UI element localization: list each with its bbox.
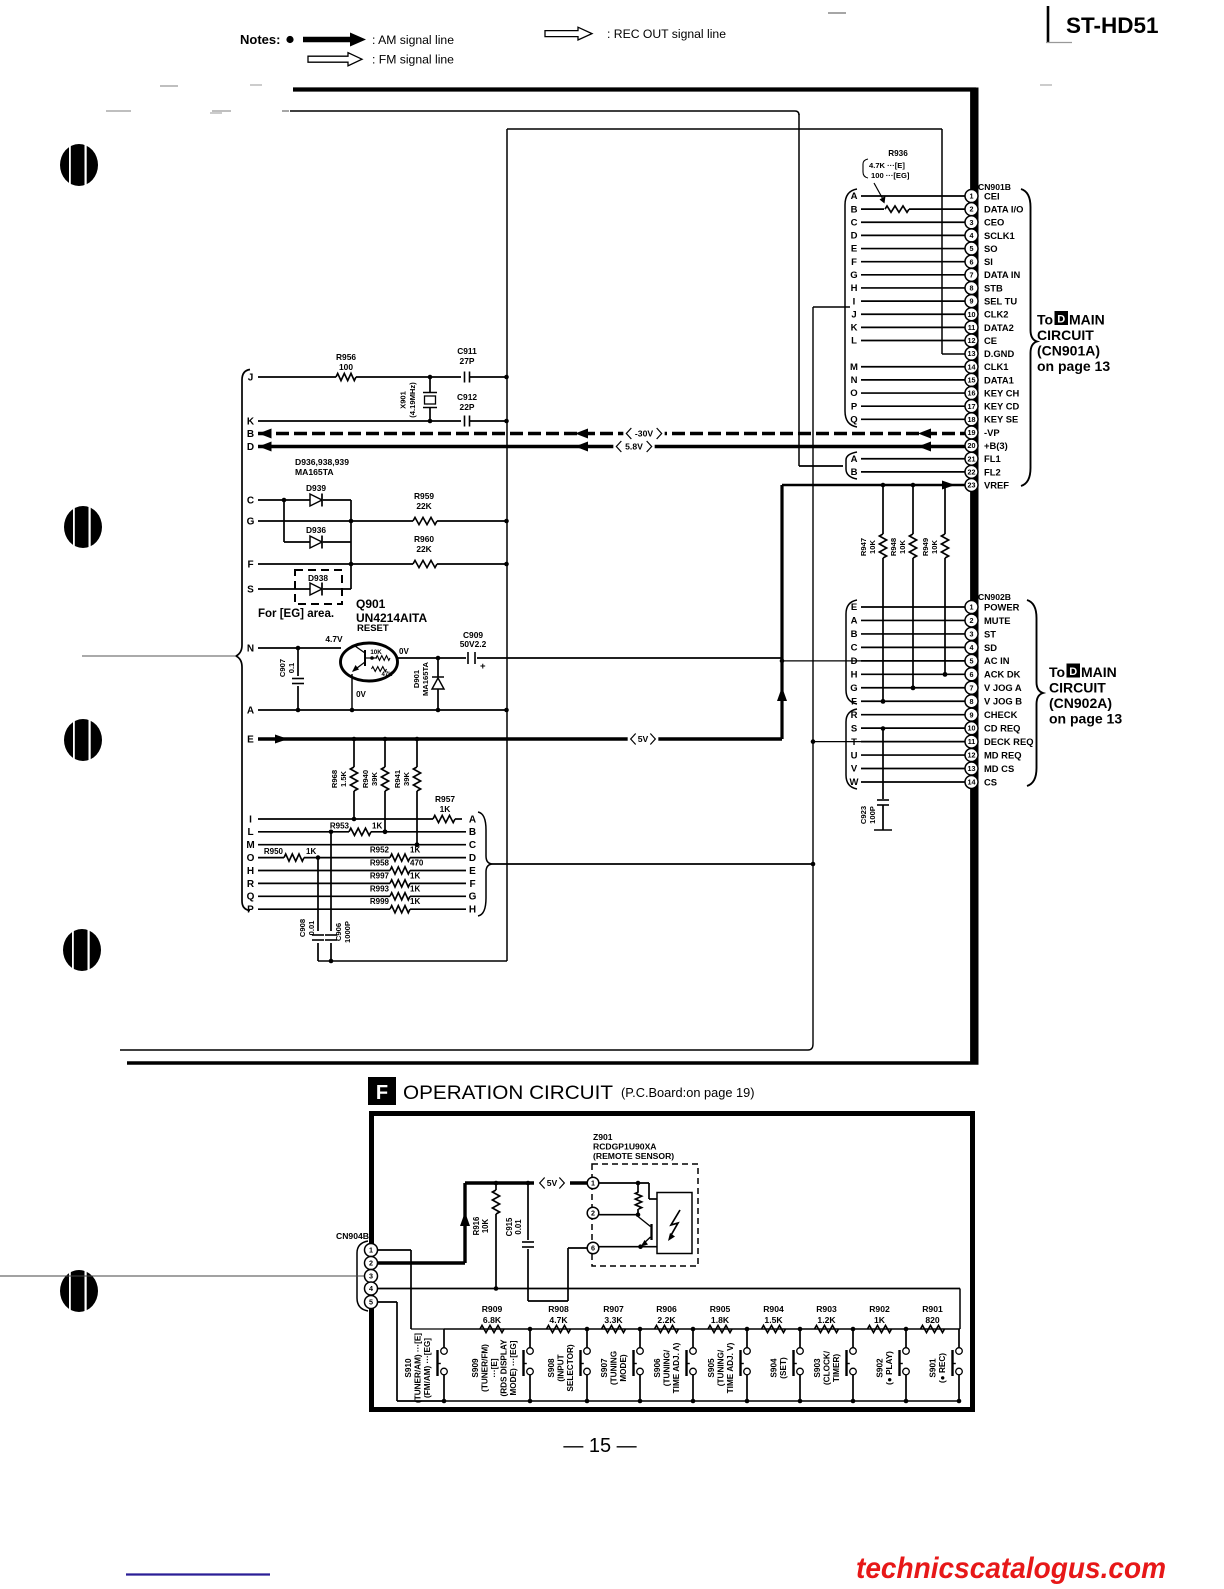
svg-text:2: 2 — [970, 205, 974, 214]
svg-text:1K: 1K — [410, 871, 420, 880]
svg-text:R952: R952 — [370, 846, 390, 855]
svg-text:H: H — [469, 905, 476, 916]
svg-text:M: M — [850, 362, 858, 373]
svg-text:(RDS DISPLAY: (RDS DISPLAY — [500, 1339, 509, 1397]
svg-text:22P: 22P — [460, 402, 475, 412]
svg-text:H: H — [851, 283, 858, 294]
svg-text:SCLK1: SCLK1 — [984, 230, 1015, 241]
svg-text:C911: C911 — [457, 346, 477, 356]
svg-text:D939: D939 — [306, 483, 326, 493]
svg-text:OPERATION CIRCUIT: OPERATION CIRCUIT — [403, 1082, 613, 1104]
svg-text:5V: 5V — [547, 1178, 558, 1188]
svg-text:A: A — [469, 814, 476, 825]
svg-text:5: 5 — [970, 244, 974, 253]
svg-text:16: 16 — [968, 389, 976, 398]
svg-text:D936,938,939: D936,938,939 — [295, 457, 349, 467]
svg-text:0.01: 0.01 — [514, 1219, 523, 1235]
svg-text:E: E — [851, 244, 857, 255]
svg-text:2: 2 — [369, 1259, 373, 1268]
svg-text:A: A — [247, 705, 254, 716]
svg-text:RCDGP1U90XA: RCDGP1U90XA — [593, 1142, 657, 1152]
svg-text:+B(3): +B(3) — [984, 440, 1008, 451]
svg-text:1K: 1K — [410, 884, 420, 893]
svg-text:T: T — [851, 737, 857, 748]
svg-text:CLK2: CLK2 — [984, 309, 1008, 320]
svg-text:2: 2 — [970, 616, 974, 625]
svg-text:SO: SO — [984, 243, 998, 254]
svg-text:R956: R956 — [336, 352, 356, 362]
svg-text:A: A — [851, 191, 858, 202]
svg-text:(REMOTE SENSOR): (REMOTE SENSOR) — [593, 1151, 674, 1161]
svg-text:D901: D901 — [412, 669, 421, 688]
svg-text:D: D — [469, 853, 476, 864]
svg-text:1: 1 — [369, 1246, 373, 1255]
svg-text:1K: 1K — [410, 897, 420, 906]
svg-text:+: + — [480, 661, 486, 672]
svg-text:D.GND: D.GND — [984, 348, 1014, 359]
svg-text:D: D — [851, 231, 858, 242]
svg-text:KEY CH: KEY CH — [984, 387, 1019, 398]
svg-text:S907: S907 — [600, 1358, 609, 1378]
svg-text:1K: 1K — [874, 1315, 886, 1325]
svg-text:J: J — [248, 372, 254, 383]
svg-text:B: B — [851, 629, 858, 640]
svg-text:3.3K: 3.3K — [604, 1315, 623, 1325]
svg-text:(TUNING/: (TUNING/ — [717, 1349, 726, 1386]
svg-text:To: To — [1049, 664, 1065, 680]
svg-text:3: 3 — [970, 218, 974, 227]
svg-text:MA165TA: MA165TA — [295, 467, 334, 477]
svg-text:D938: D938 — [308, 573, 328, 583]
svg-text:S910: S910 — [404, 1358, 413, 1378]
svg-text:6: 6 — [591, 1244, 595, 1253]
svg-text:6: 6 — [970, 257, 974, 266]
svg-text:VREF: VREF — [984, 479, 1009, 490]
svg-text:N: N — [851, 375, 858, 386]
svg-text:(TUNER/FM): (TUNER/FM) — [481, 1344, 490, 1392]
svg-text:11: 11 — [968, 737, 976, 746]
svg-text:20: 20 — [968, 441, 976, 450]
svg-text:12: 12 — [968, 336, 976, 345]
svg-text:A: A — [851, 454, 858, 465]
svg-text:5: 5 — [970, 656, 974, 665]
svg-text:on page 13: on page 13 — [1049, 711, 1122, 727]
svg-text:J: J — [851, 309, 856, 320]
svg-text:S905: S905 — [707, 1358, 716, 1378]
svg-text:S: S — [247, 584, 254, 595]
svg-text:15: 15 — [968, 376, 976, 385]
svg-text:9: 9 — [970, 297, 974, 306]
svg-text:CN904B: CN904B — [336, 1231, 369, 1241]
svg-text:V JOG B: V JOG B — [984, 696, 1022, 707]
svg-text:W: W — [850, 777, 859, 788]
svg-text:39K: 39K — [402, 772, 411, 786]
svg-text:: AM signal line: : AM signal line — [372, 33, 454, 47]
svg-text:(● PLAY): (● PLAY) — [885, 1351, 894, 1385]
svg-text:KEY CD: KEY CD — [984, 401, 1019, 412]
svg-text:MUTE: MUTE — [984, 615, 1011, 626]
svg-text:KEY SE: KEY SE — [984, 414, 1018, 425]
svg-text:R950: R950 — [264, 847, 284, 856]
svg-text:Q: Q — [247, 892, 255, 903]
svg-text:R949: R949 — [921, 538, 930, 556]
svg-text:MODE): MODE) — [619, 1354, 628, 1382]
svg-text:(CN902A): (CN902A) — [1049, 695, 1112, 711]
svg-text:R957: R957 — [435, 794, 455, 804]
svg-text:V JOG A: V JOG A — [984, 682, 1022, 693]
svg-text:(CLOCK/: (CLOCK/ — [823, 1350, 832, 1385]
svg-text:1.5K: 1.5K — [339, 770, 348, 787]
svg-text:Q901: Q901 — [356, 597, 386, 611]
svg-text:SD: SD — [984, 642, 997, 653]
svg-text:5: 5 — [369, 1298, 373, 1307]
svg-text:-VP: -VP — [984, 427, 1000, 438]
svg-text:CIRCUIT: CIRCUIT — [1049, 680, 1106, 696]
svg-text:(● REC): (● REC) — [938, 1353, 947, 1383]
svg-text:C: C — [469, 840, 476, 851]
svg-text:U: U — [851, 750, 858, 761]
svg-text:CE: CE — [984, 335, 997, 346]
svg-text:TIME ADJ. Λ): TIME ADJ. Λ) — [672, 1342, 681, 1393]
svg-text:S909: S909 — [471, 1358, 480, 1378]
svg-text:C908: C908 — [298, 919, 307, 937]
svg-text:C906: C906 — [334, 923, 343, 941]
svg-text:1000P: 1000P — [343, 921, 352, 943]
svg-text:B: B — [851, 204, 858, 215]
svg-text:1.5K: 1.5K — [764, 1315, 783, 1325]
svg-text:1K: 1K — [440, 804, 451, 814]
svg-text:2: 2 — [591, 1209, 595, 1218]
svg-text:0.01: 0.01 — [307, 920, 316, 936]
svg-text:O: O — [247, 853, 255, 864]
svg-text:R936: R936 — [888, 149, 908, 158]
svg-text:POWER: POWER — [984, 601, 1020, 612]
svg-text:R908: R908 — [548, 1304, 569, 1314]
svg-text:F: F — [851, 696, 857, 707]
svg-text:C915: C915 — [505, 1217, 514, 1236]
svg-text:C907: C907 — [278, 659, 287, 677]
svg-text:FL2: FL2 — [984, 466, 1001, 477]
svg-text:MODE) ···[EG]: MODE) ···[EG] — [509, 1340, 518, 1395]
svg-text:CEO: CEO — [984, 217, 1004, 228]
svg-text:Notes:: Notes: — [240, 32, 280, 47]
svg-text:R953: R953 — [330, 822, 350, 831]
svg-text:Z901: Z901 — [593, 1132, 613, 1142]
svg-text:X901: X901 — [399, 390, 408, 409]
svg-text:6.8K: 6.8K — [483, 1315, 502, 1325]
svg-text:470: 470 — [410, 859, 424, 868]
svg-text:MD CS: MD CS — [984, 763, 1014, 774]
svg-text:R941: R941 — [393, 769, 402, 788]
svg-text:C912: C912 — [457, 392, 477, 402]
svg-text:E: E — [469, 866, 476, 877]
svg-text:CD REQ: CD REQ — [984, 723, 1020, 734]
svg-text:23: 23 — [968, 481, 976, 490]
svg-text:R904: R904 — [763, 1304, 784, 1314]
svg-text:50V2.2: 50V2.2 — [460, 639, 487, 649]
svg-text:10: 10 — [968, 724, 976, 733]
svg-text:MAIN: MAIN — [1069, 312, 1105, 328]
svg-text:R903: R903 — [816, 1304, 837, 1314]
svg-text:R993: R993 — [370, 884, 390, 893]
svg-text:1K: 1K — [372, 822, 382, 831]
svg-text:1: 1 — [970, 603, 974, 612]
svg-text:K: K — [247, 416, 255, 427]
svg-text:R902: R902 — [869, 1304, 890, 1314]
svg-text:(FM/AM) ···[EG]: (FM/AM) ···[EG] — [423, 1338, 432, 1398]
svg-text:7: 7 — [970, 683, 974, 692]
svg-text:MD REQ: MD REQ — [984, 749, 1022, 760]
svg-text:TIME ADJ. V): TIME ADJ. V) — [726, 1342, 735, 1393]
svg-text:3: 3 — [369, 1272, 373, 1281]
svg-text:1: 1 — [591, 1179, 595, 1188]
svg-text:39K: 39K — [370, 772, 379, 786]
svg-text:1K: 1K — [306, 847, 316, 856]
svg-text:5.8V: 5.8V — [625, 442, 643, 452]
svg-text:SEL TU: SEL TU — [984, 295, 1017, 306]
svg-text:1.2K: 1.2K — [817, 1315, 836, 1325]
svg-text:DATA IN: DATA IN — [984, 269, 1021, 280]
svg-text:FL1: FL1 — [984, 453, 1001, 464]
svg-text:0V: 0V — [399, 647, 409, 656]
svg-text:27P: 27P — [460, 356, 475, 366]
svg-text:R907: R907 — [603, 1304, 624, 1314]
svg-text:F: F — [247, 559, 253, 570]
svg-text:D: D — [1057, 313, 1065, 325]
svg-text:B: B — [851, 467, 858, 478]
svg-text:R999: R999 — [370, 897, 390, 906]
svg-text:I: I — [853, 296, 856, 307]
svg-text:-30V: -30V — [635, 429, 653, 439]
svg-text:RESET: RESET — [357, 623, 389, 634]
svg-text:R997: R997 — [370, 871, 390, 880]
svg-text:2.2K: 2.2K — [657, 1315, 676, 1325]
svg-text:4.7V: 4.7V — [325, 634, 343, 644]
svg-text:0V: 0V — [356, 690, 366, 699]
svg-text:AC IN: AC IN — [984, 655, 1010, 666]
svg-text:To: To — [1037, 312, 1053, 328]
svg-text:CHECK: CHECK — [984, 709, 1018, 720]
svg-text:C: C — [851, 217, 858, 228]
svg-text:(TUNER/AM) ···[E]: (TUNER/AM) ···[E] — [414, 1333, 423, 1403]
svg-text:14: 14 — [968, 362, 976, 371]
svg-text:6: 6 — [970, 670, 974, 679]
svg-text:(P.C.Board:on page 19): (P.C.Board:on page 19) — [621, 1085, 755, 1100]
svg-text:R958: R958 — [370, 859, 390, 868]
svg-text:13: 13 — [968, 349, 976, 358]
svg-text:10K: 10K — [481, 1218, 490, 1233]
svg-text:SI: SI — [984, 256, 993, 267]
svg-text:: REC OUT signal line: : REC OUT signal line — [607, 27, 726, 41]
svg-text:8: 8 — [970, 697, 974, 706]
svg-text:C923: C923 — [859, 806, 868, 824]
svg-text:(SET): (SET) — [779, 1357, 788, 1379]
svg-text:10K: 10K — [898, 540, 907, 554]
svg-text:4.7K ···[E]: 4.7K ···[E] — [869, 161, 905, 170]
svg-text:14: 14 — [968, 778, 976, 787]
svg-text:D: D — [247, 442, 254, 453]
svg-text:4: 4 — [970, 643, 974, 652]
svg-text:S904: S904 — [770, 1358, 779, 1378]
svg-text:— 15 —: — 15 — — [563, 1435, 636, 1457]
svg-text:MA165TA: MA165TA — [421, 661, 430, 696]
svg-text:S906: S906 — [653, 1358, 662, 1378]
svg-text:G: G — [247, 516, 255, 527]
svg-text:S903: S903 — [813, 1358, 822, 1378]
svg-text:R909: R909 — [482, 1304, 503, 1314]
svg-text:DATA I/O: DATA I/O — [984, 204, 1023, 215]
svg-text:(CN901A): (CN901A) — [1037, 343, 1100, 359]
svg-text:A: A — [851, 616, 858, 627]
svg-text:1.8K: 1.8K — [711, 1315, 730, 1325]
svg-text:L: L — [851, 336, 857, 347]
svg-text:9: 9 — [970, 710, 974, 719]
svg-text:R968: R968 — [330, 770, 339, 788]
svg-text:R940: R940 — [361, 770, 370, 788]
svg-text:···[E]: ···[E] — [490, 1358, 499, 1377]
svg-text:10K: 10K — [868, 540, 877, 554]
svg-text:4: 4 — [970, 231, 974, 240]
svg-text:V: V — [851, 764, 858, 775]
svg-text:R960: R960 — [414, 534, 434, 544]
svg-text:(TUNING/: (TUNING/ — [663, 1349, 672, 1386]
svg-text:R947: R947 — [859, 538, 868, 556]
svg-text:on page 13: on page 13 — [1037, 358, 1110, 374]
svg-text:L: L — [247, 827, 253, 838]
svg-text:DATA2: DATA2 — [984, 322, 1014, 333]
svg-text:TIMER): TIMER) — [832, 1354, 841, 1382]
svg-text:4.7K: 4.7K — [549, 1315, 568, 1325]
svg-text:G: G — [469, 892, 477, 903]
svg-text:CLK1: CLK1 — [984, 361, 1008, 372]
svg-text:For [EG] area.: For [EG] area. — [258, 608, 334, 620]
svg-text:R901: R901 — [922, 1304, 943, 1314]
svg-text:13: 13 — [968, 764, 976, 773]
svg-text:E: E — [851, 602, 857, 613]
svg-text:22K: 22K — [416, 501, 431, 511]
svg-text:O: O — [850, 388, 857, 399]
svg-text:19: 19 — [968, 428, 976, 437]
svg-text:8: 8 — [970, 284, 974, 293]
svg-text:5V: 5V — [638, 734, 649, 744]
svg-text:3: 3 — [970, 630, 974, 639]
svg-text:18: 18 — [968, 415, 976, 424]
svg-text:11: 11 — [968, 323, 976, 332]
svg-text:(INPUT: (INPUT — [557, 1354, 566, 1381]
svg-text:R: R — [851, 710, 858, 721]
svg-text:S908: S908 — [547, 1358, 556, 1378]
svg-text:ST-HD51: ST-HD51 — [1066, 13, 1159, 38]
svg-text:17: 17 — [968, 402, 976, 411]
svg-text:CIRCUIT: CIRCUIT — [1037, 327, 1094, 343]
svg-text:1K: 1K — [410, 846, 420, 855]
svg-text:ACK DK: ACK DK — [984, 669, 1021, 680]
svg-text:F: F — [469, 879, 475, 890]
svg-text:C: C — [851, 643, 858, 654]
svg-text:10K: 10K — [370, 649, 382, 656]
svg-text:100 ···[EG]: 100 ···[EG] — [871, 171, 910, 180]
svg-text:E: E — [247, 734, 254, 745]
svg-text:C: C — [247, 495, 254, 506]
svg-text:N: N — [247, 643, 254, 654]
svg-text:21: 21 — [968, 454, 976, 463]
svg-text:1: 1 — [970, 192, 974, 201]
svg-text:D936: D936 — [306, 525, 326, 535]
svg-text:7: 7 — [970, 270, 974, 279]
svg-text:4: 4 — [369, 1284, 373, 1293]
svg-text:H: H — [851, 670, 858, 681]
svg-text:B: B — [469, 827, 476, 838]
svg-text:technicscatalogus.com: technicscatalogus.com — [856, 1552, 1166, 1584]
svg-text:I: I — [249, 814, 252, 825]
svg-text:S902: S902 — [876, 1358, 885, 1378]
svg-text:D: D — [851, 656, 858, 667]
svg-text:0.1: 0.1 — [287, 662, 296, 673]
svg-text:D: D — [1069, 666, 1077, 678]
svg-text:22: 22 — [968, 467, 976, 476]
svg-text:R906: R906 — [656, 1304, 677, 1314]
svg-text:47K: 47K — [381, 672, 393, 678]
svg-text:12: 12 — [968, 751, 976, 760]
svg-text:P: P — [851, 401, 858, 412]
svg-text:22K: 22K — [416, 544, 431, 554]
svg-text:DECK REQ: DECK REQ — [984, 736, 1033, 747]
svg-text:G: G — [850, 683, 857, 694]
svg-text:F: F — [851, 257, 857, 268]
svg-text:H: H — [247, 866, 254, 877]
svg-text:STB: STB — [984, 282, 1003, 293]
svg-text:(4.19MHz): (4.19MHz) — [408, 382, 417, 418]
svg-text:R905: R905 — [710, 1304, 731, 1314]
svg-text:CS: CS — [984, 776, 997, 787]
svg-text:MAIN: MAIN — [1081, 664, 1117, 680]
svg-text:100P: 100P — [868, 806, 877, 824]
svg-text:R: R — [247, 879, 255, 890]
svg-text:S901: S901 — [929, 1358, 938, 1378]
svg-text:R916: R916 — [472, 1216, 481, 1235]
svg-text:(TUNING: (TUNING — [610, 1351, 619, 1385]
svg-text:SELECTOR): SELECTOR) — [566, 1344, 575, 1391]
svg-text:DATA1: DATA1 — [984, 374, 1014, 385]
svg-text:100: 100 — [339, 362, 353, 372]
svg-text:S: S — [851, 723, 857, 734]
svg-text:: FM signal line: : FM signal line — [372, 53, 454, 67]
svg-text:Q: Q — [850, 415, 857, 426]
svg-text:CEI: CEI — [984, 190, 1000, 201]
svg-text:10: 10 — [968, 310, 976, 319]
svg-text:G: G — [850, 270, 857, 281]
svg-text:R948: R948 — [889, 538, 898, 556]
svg-text:F: F — [376, 1082, 388, 1104]
svg-text:R959: R959 — [414, 491, 434, 501]
svg-text:B: B — [247, 429, 254, 440]
svg-text:K: K — [851, 323, 858, 334]
svg-text:820: 820 — [925, 1315, 940, 1325]
svg-text:M: M — [246, 840, 254, 851]
svg-text:10K: 10K — [930, 540, 939, 554]
svg-text:ST: ST — [984, 628, 996, 639]
